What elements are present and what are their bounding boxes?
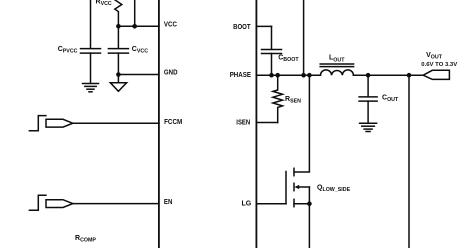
wire input column from top xyxy=(303,0,305,75)
wire PVCC supply column xyxy=(90,0,92,48)
step source EN xyxy=(29,195,46,210)
capacitor CBOOT xyxy=(262,50,282,54)
wire CBOOT top xyxy=(271,26,273,49)
wire FCCM pin xyxy=(73,122,159,124)
svg-text:GND: GND xyxy=(164,68,178,77)
resistor RSEN xyxy=(273,75,283,122)
svg-text:FCCM: FCCM xyxy=(164,117,182,126)
net tag EN xyxy=(46,200,73,208)
capacitor CPVCC xyxy=(81,49,101,54)
svg-text:BOOT: BOOT xyxy=(233,22,251,31)
transistor Q1 channel segments xyxy=(293,168,295,206)
wire EN pin xyxy=(73,203,159,205)
inductor LOUT coils xyxy=(321,70,354,75)
ground (power ground bars) under CPVCC xyxy=(83,84,99,92)
node junction CBOOT/PHASE xyxy=(269,73,274,78)
wire BOOT pin xyxy=(256,25,271,27)
capacitor CVCC xyxy=(108,49,128,54)
net tag VOUT xyxy=(423,70,449,79)
svg-text:LG: LG xyxy=(242,199,252,208)
IC U1 left edge xyxy=(158,0,160,248)
ground (analog triangle) under CVCC xyxy=(110,83,126,92)
node junction VCC column xyxy=(132,24,137,29)
svg-text:RSEN: RSEN xyxy=(285,96,301,105)
wire CVCC top xyxy=(117,26,119,48)
node junction feedback xyxy=(407,73,412,78)
net tag FCCM xyxy=(46,119,73,127)
svg-text:LOUT: LOUT xyxy=(329,55,345,64)
svg-text:CPVCC: CPVCC xyxy=(58,46,78,55)
wire GND pin xyxy=(118,74,158,76)
node junction GND xyxy=(116,72,121,77)
transistor Q1 drain stub xyxy=(294,75,309,172)
transistor Q1 source stub xyxy=(294,203,309,205)
wire VCC column from top xyxy=(134,0,136,26)
wire source column to bottom xyxy=(308,187,310,248)
transistor Q1 gate bar xyxy=(285,172,287,204)
ground (power ground bars) under COUT xyxy=(360,123,377,131)
node junction VIN column/PHASE xyxy=(301,73,306,78)
svg-text:VCC: VCC xyxy=(164,20,177,29)
svg-text:VOUT: VOUT xyxy=(426,52,443,61)
wire ISEN pin xyxy=(256,122,277,124)
wire CPVCC to ground xyxy=(90,53,92,83)
svg-text:PHASE: PHASE xyxy=(230,70,251,79)
capacitor COUT xyxy=(359,97,377,101)
wire VCC pin xyxy=(118,25,158,27)
svg-text:ISEN: ISEN xyxy=(236,118,250,127)
wire COUT top xyxy=(367,75,369,97)
node junction source xyxy=(307,201,312,206)
wire COUT bottom xyxy=(367,101,369,123)
svg-text:RCOMP: RCOMP xyxy=(75,235,96,244)
wire LG pin xyxy=(256,203,286,205)
svg-text:CVCC: CVCC xyxy=(132,46,148,55)
IC U1 right edge xyxy=(255,0,257,248)
wire VOUT net xyxy=(353,74,423,76)
svg-text:EN: EN xyxy=(164,197,173,206)
svg-text:CBOOT: CBOOT xyxy=(278,55,299,64)
node junction COUT xyxy=(366,73,371,78)
wire PHASE pin xyxy=(256,74,320,76)
wire CVCC bottom to GND xyxy=(117,53,119,83)
inductor LOUT core bars xyxy=(320,64,353,67)
svg-text:0.6V TO 3.3V: 0.6V TO 3.3V xyxy=(421,62,457,68)
transistor Q1 body arrow xyxy=(294,185,309,189)
node junction RSEN/PHASE xyxy=(275,73,280,78)
svg-text:RVCC: RVCC xyxy=(96,0,112,7)
wire CBOOT bottom xyxy=(271,54,273,76)
svg-text:COUT: COUT xyxy=(382,95,399,104)
svg-text:QLOW_SIDE: QLOW_SIDE xyxy=(317,184,351,193)
resistor RVCC (cut off at top) xyxy=(115,0,122,26)
node junction drain/PHASE xyxy=(307,73,312,78)
node junction RVCC/CVCC xyxy=(116,24,121,29)
step source FCCM xyxy=(29,116,46,131)
wire feedback column xyxy=(408,75,410,248)
